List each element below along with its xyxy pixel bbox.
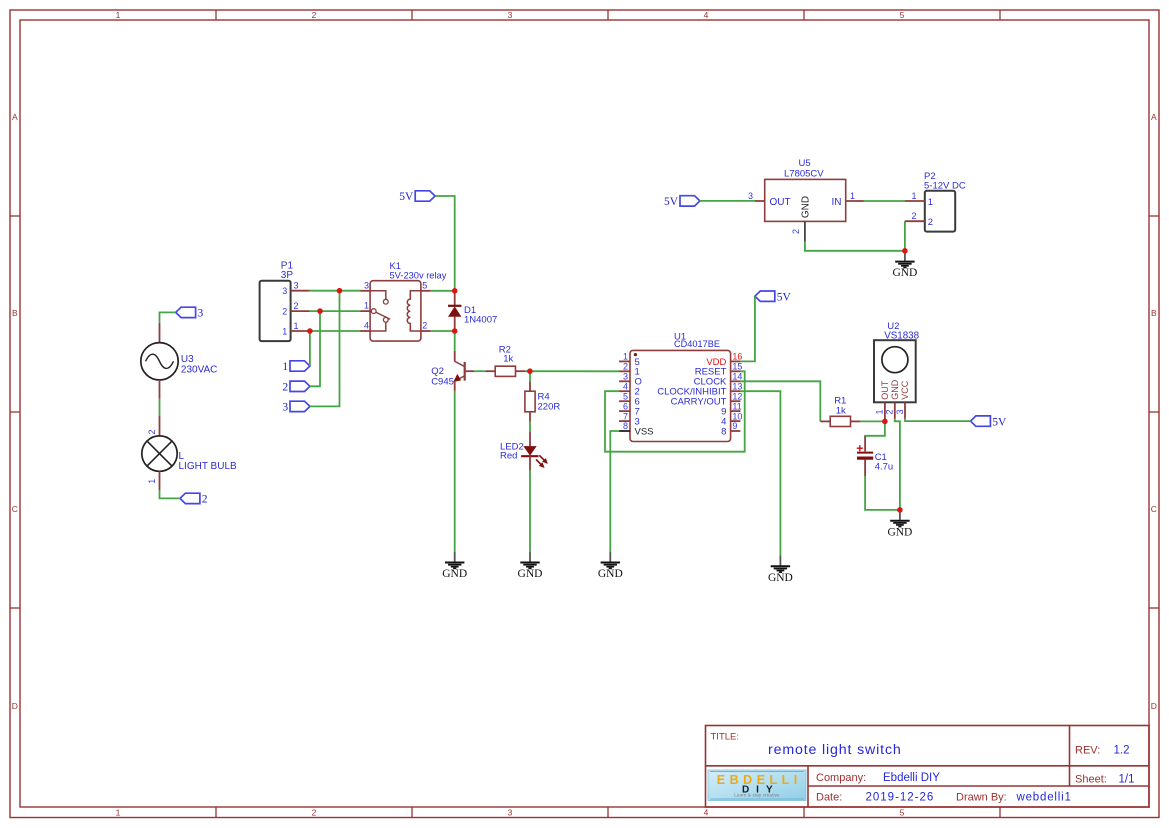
junction R1/U2.OUT/C1: [882, 419, 888, 425]
svg-text:GND: GND: [598, 568, 623, 580]
resistor R2 1k: [485, 344, 525, 376]
svg-text:Date:: Date:: [816, 792, 842, 804]
svg-text:C: C: [1151, 504, 1157, 514]
svg-text:4: 4: [704, 808, 709, 818]
svg-text:REV:: REV:: [1075, 744, 1100, 756]
wire node to C1: [865, 421, 885, 437]
svg-text:3: 3: [748, 191, 753, 201]
svg-text:5: 5: [900, 808, 905, 818]
junction relay2/D1/Q2: [452, 328, 458, 334]
junction P1.3/relay: [337, 288, 343, 294]
ground (Q2 emitter): [442, 552, 467, 580]
ground (U1 VSS): [598, 552, 623, 580]
svg-text:C: C: [12, 504, 18, 514]
svg-text:1: 1: [364, 301, 369, 311]
ground (P2/U5): [892, 251, 917, 279]
svg-text:VCC: VCC: [900, 380, 910, 400]
wire node to Q2 collector: [454, 331, 456, 352]
power flag 5V (top): [399, 191, 435, 203]
svg-text:2: 2: [623, 362, 628, 372]
svg-text:1/1: 1/1: [1119, 773, 1135, 785]
wire U1 VDD to 5V flag: [740, 296, 755, 361]
svg-text:5V-230v relay: 5V-230v relay: [390, 271, 447, 281]
resistor R1 1k: [820, 396, 860, 427]
svg-text:3: 3: [623, 372, 628, 382]
svg-text:CD4017BE: CD4017BE: [674, 339, 720, 349]
svg-text:1: 1: [282, 326, 287, 336]
junction P1.2/relay: [317, 308, 323, 314]
svg-text:1.2: 1.2: [1114, 744, 1130, 756]
svg-text:7: 7: [623, 411, 628, 421]
svg-text:8: 8: [623, 421, 628, 431]
svg-text:1: 1: [623, 352, 628, 362]
svg-text:6: 6: [623, 401, 628, 411]
wire bulb to flag 2: [160, 490, 181, 498]
svg-text:3: 3: [294, 281, 299, 291]
svg-text:Company:: Company:: [816, 772, 866, 784]
svg-text:1k: 1k: [503, 353, 513, 364]
svg-text:B: B: [1151, 308, 1157, 318]
svg-text:1N4007: 1N4007: [464, 314, 497, 325]
connector P2 5-12V DC: [905, 171, 966, 231]
svg-text:A: A: [12, 112, 18, 122]
wire P1 pin3 to relay pin3: [310, 290, 361, 292]
svg-text:2: 2: [928, 217, 933, 228]
svg-text:IN: IN: [832, 197, 842, 208]
svg-text:16: 16: [732, 352, 742, 362]
svg-text:remote light switch: remote light switch: [768, 742, 902, 758]
svg-text:GND: GND: [887, 526, 912, 538]
power flag 5V (U1 VDD): [755, 291, 792, 303]
junction 5V/relay5/D1: [452, 288, 458, 294]
svg-text:4: 4: [364, 321, 369, 331]
ground (U1 CLOCK/INHIBIT): [768, 556, 793, 584]
svg-text:2: 2: [312, 808, 317, 818]
svg-text:5V: 5V: [992, 416, 1007, 428]
svg-text:Learn & stay creative: Learn & stay creative: [734, 792, 780, 797]
svg-text:220R: 220R: [538, 401, 561, 412]
svg-text:12: 12: [732, 391, 742, 401]
svg-text:C945: C945: [431, 376, 454, 387]
svg-text:2: 2: [147, 429, 157, 434]
ground (U2/C1): [887, 510, 912, 538]
svg-text:230VAC: 230VAC: [181, 365, 218, 376]
junction R2/R4/U1: [527, 368, 533, 374]
wire C1 to ground node: [865, 476, 900, 510]
svg-text:5V: 5V: [664, 196, 679, 208]
wire P1 pin2 to relay pin1: [310, 310, 361, 312]
wire relay pin5 to node: [431, 290, 455, 292]
svg-text:5V: 5V: [777, 291, 792, 303]
svg-text:GND: GND: [518, 568, 543, 580]
svg-text:2: 2: [282, 382, 288, 394]
wire relay pin2 to node: [431, 330, 455, 332]
svg-text:K1: K1: [390, 261, 401, 271]
svg-text:5: 5: [900, 10, 905, 20]
svg-text:GND: GND: [800, 196, 811, 218]
svg-text:1: 1: [294, 321, 299, 331]
wire node to flag 1: [309, 331, 311, 366]
net flag 3 (U3): [176, 307, 204, 319]
LED2 Red: [500, 432, 548, 470]
wire R1 to U2 OUT node: [860, 420, 885, 422]
svg-text:2: 2: [885, 409, 895, 414]
net flag 1: [282, 361, 310, 373]
svg-text:2019-12-26: 2019-12-26: [866, 792, 935, 804]
svg-text:2: 2: [294, 301, 299, 311]
wire 5V flag to U5 OUT: [700, 200, 755, 202]
wire flag 3 to U3: [160, 312, 176, 322]
svg-text:8: 8: [721, 426, 726, 437]
net flag 3: [282, 401, 310, 413]
capacitor C1 4.7u: [857, 436, 893, 476]
svg-text:5: 5: [623, 391, 628, 401]
svg-text:1: 1: [116, 10, 121, 20]
svg-text:TITLE:: TITLE:: [711, 732, 740, 743]
EBDELLI DIY logo: [708, 770, 806, 801]
IR receiver U2 VS1838: [874, 321, 920, 422]
power flag 5V (U2 VCC): [971, 416, 1008, 428]
wire U1 CLOCK/INHIBIT to ground: [740, 391, 780, 555]
svg-text:5: 5: [422, 280, 427, 290]
svg-text:3: 3: [508, 10, 513, 20]
wire U3 to light bulb: [159, 399, 161, 416]
net flag 2: [282, 381, 310, 393]
resistor R4 220R: [525, 381, 560, 422]
wire P1 pin1 to relay pin4: [310, 330, 361, 332]
svg-text:1: 1: [875, 409, 885, 414]
wire U5 IN to P2 pin1: [864, 200, 905, 202]
svg-text:GND: GND: [892, 267, 917, 279]
relay K1: [360, 261, 446, 341]
svg-text:CARRY/OUT: CARRY/OUT: [671, 397, 727, 408]
power flag 5V (U5 out): [664, 196, 700, 208]
wire R4 to LED2: [529, 422, 531, 432]
wire LED2 to ground: [529, 470, 531, 552]
svg-text:4.7u: 4.7u: [875, 462, 894, 473]
svg-text:4: 4: [623, 381, 628, 391]
svg-text:3: 3: [282, 286, 287, 296]
svg-text:GND: GND: [442, 568, 467, 580]
svg-text:3: 3: [198, 308, 204, 320]
svg-text:VS1838: VS1838: [884, 331, 919, 342]
svg-text:Ebdelli DIY: Ebdelli DIY: [883, 772, 940, 784]
svg-text:webdelli1: webdelli1: [1016, 792, 1072, 804]
svg-text:D: D: [1151, 701, 1157, 711]
svg-text:OUT: OUT: [770, 197, 791, 208]
net flag 2 (bulb): [180, 493, 208, 505]
ground (LED2): [518, 552, 543, 580]
junction U5.GND/P2.2/ground: [902, 248, 908, 254]
light bulb L: [142, 416, 237, 491]
svg-text:Drawn By:: Drawn By:: [956, 792, 1007, 804]
svg-text:4: 4: [704, 10, 709, 20]
wire Q2 base to R2: [474, 370, 485, 372]
svg-text:1: 1: [282, 361, 288, 373]
svg-text:Red: Red: [500, 450, 517, 461]
wire node to flag 2: [310, 311, 320, 386]
svg-text:5V: 5V: [399, 191, 414, 203]
wire U5 GND to ground node: [805, 241, 905, 250]
svg-text:1: 1: [928, 197, 933, 208]
svg-text:A: A: [1151, 112, 1157, 122]
title block: [706, 726, 1150, 808]
svg-text:3: 3: [895, 409, 905, 414]
wire P2 pin2 down: [904, 221, 906, 251]
svg-text:2: 2: [282, 306, 287, 316]
svg-text:U5: U5: [799, 158, 811, 169]
connector P1: [260, 261, 310, 342]
wire U1 CLOCK to R1: [740, 381, 820, 421]
AC source U3 230VAC: [141, 323, 218, 399]
svg-text:3P: 3P: [281, 270, 294, 281]
svg-text:2: 2: [791, 229, 801, 234]
svg-text:B: B: [12, 308, 18, 318]
wire U2 VCC to 5V flag: [905, 419, 971, 422]
svg-text:10: 10: [732, 411, 742, 421]
svg-text:1k: 1k: [836, 406, 846, 417]
wire U1 RESET loop to pin4: [605, 371, 745, 451]
svg-text:1: 1: [147, 479, 157, 484]
svg-text:GND: GND: [890, 379, 900, 400]
svg-text:3: 3: [364, 280, 369, 290]
wire U2 GND to ground node: [895, 419, 900, 510]
transistor Q2 C945: [431, 351, 474, 391]
wire node to flag 3: [310, 291, 340, 407]
svg-text:1: 1: [850, 191, 855, 201]
svg-text:Sheet:: Sheet:: [1075, 773, 1107, 785]
wire Q2 emitter to ground: [454, 391, 456, 552]
svg-text:13: 13: [732, 381, 742, 391]
svg-text:9: 9: [732, 421, 737, 431]
svg-text:5-12V DC: 5-12V DC: [924, 181, 966, 192]
svg-text:OUT: OUT: [880, 380, 890, 400]
wire 5V to relay/D1 node: [435, 196, 455, 291]
svg-text:2: 2: [202, 494, 208, 506]
junction C1/U2.GND/ground: [897, 507, 903, 513]
svg-text:LIGHT BULB: LIGHT BULB: [179, 461, 237, 472]
svg-text:3: 3: [282, 402, 288, 414]
wire U1 VSS to ground: [610, 431, 619, 552]
voltage regulator U5 L7805CV: [748, 158, 864, 241]
svg-text:14: 14: [732, 372, 742, 382]
svg-text:GND: GND: [768, 572, 793, 584]
svg-text:2: 2: [422, 321, 427, 331]
svg-text:U3: U3: [181, 354, 194, 365]
svg-text:2: 2: [911, 211, 916, 221]
wire R2 to U1 pin2: [526, 370, 620, 372]
svg-text:11: 11: [732, 401, 741, 411]
svg-text:VSS: VSS: [635, 426, 654, 437]
diode D1 1N4007: [448, 291, 497, 331]
svg-text:1: 1: [911, 191, 916, 201]
junction P1.1/relay: [307, 328, 313, 334]
IC U1 CD4017BE: [619, 332, 742, 442]
svg-text:3: 3: [508, 808, 513, 818]
svg-text:1: 1: [116, 808, 121, 818]
svg-text:2: 2: [312, 10, 317, 20]
svg-text:D: D: [12, 701, 18, 711]
svg-text:L7805CV: L7805CV: [784, 169, 824, 180]
svg-text:15: 15: [732, 362, 742, 372]
wire node to R4: [529, 371, 531, 381]
